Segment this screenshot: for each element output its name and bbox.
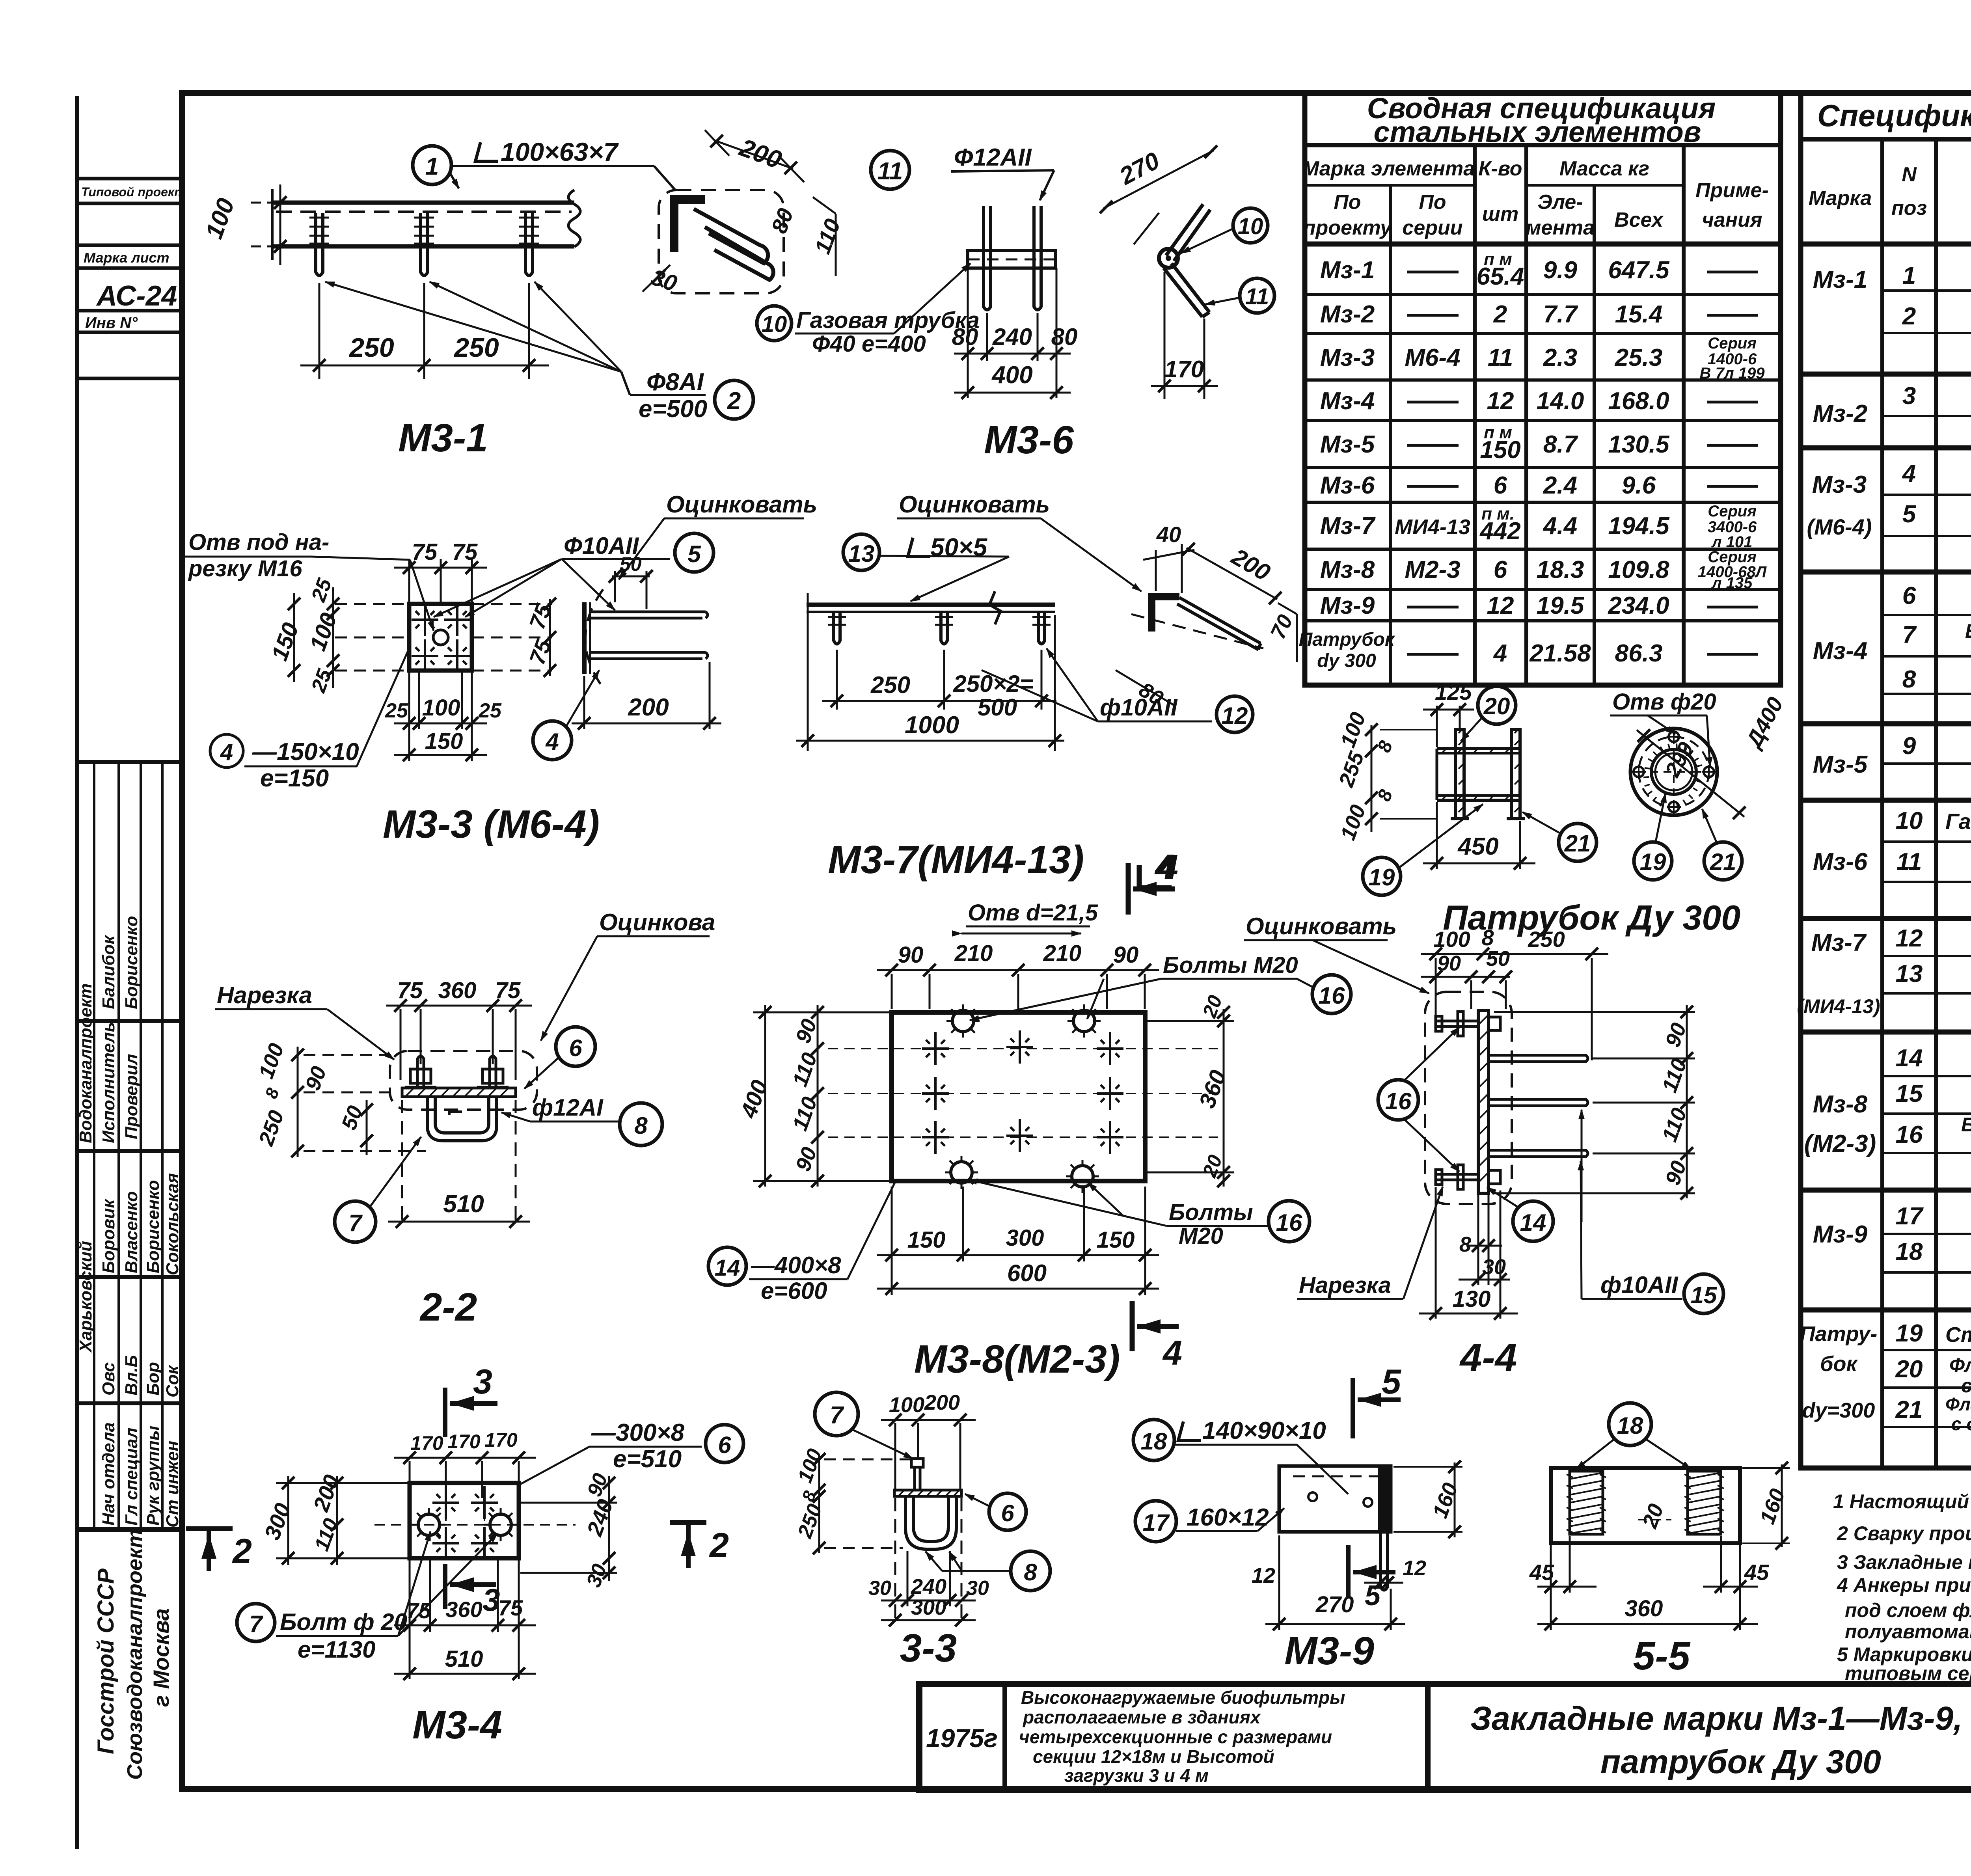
svg-text:17: 17 <box>1143 1509 1170 1536</box>
svg-text:М3-8(М2-3): М3-8(М2-3) <box>914 1337 1120 1381</box>
svg-text:10: 10 <box>762 311 787 337</box>
4-4 top dims 100 8 250 / 90 50 <box>1421 954 1608 1060</box>
svg-text:21: 21 <box>1710 849 1736 875</box>
svg-text:3: 3 <box>1902 382 1916 410</box>
svg-text:90: 90 <box>898 942 924 968</box>
МЗ-6 side dim 270 <box>1104 151 1213 208</box>
svg-text:4: 4 <box>220 740 233 765</box>
svg-text:18: 18 <box>1617 1412 1643 1439</box>
svg-text:300: 300 <box>1006 1225 1044 1251</box>
notes text <box>1833 1490 1971 1684</box>
svg-text:3 Закладные марки должны быть: 3 Закладные марки должны быть оцинкованы… <box>1837 1551 1971 1573</box>
svg-text:e=1130: e=1130 <box>298 1636 375 1663</box>
svg-text:Эле-: Эле- <box>1537 191 1583 214</box>
svg-text:e=150: e=150 <box>260 765 329 792</box>
svg-text:11: 11 <box>1896 848 1922 876</box>
summary table note cells <box>1698 335 1767 592</box>
svg-text:14: 14 <box>1896 1045 1923 1072</box>
svg-text:19: 19 <box>1640 849 1666 875</box>
svg-text:Проверил: Проверил <box>122 1054 141 1139</box>
svg-text:М3-3 (М6-4): М3-3 (М6-4) <box>383 802 600 846</box>
svg-text:75: 75 <box>397 978 423 1003</box>
svg-text:400: 400 <box>991 361 1032 389</box>
svg-text:Патрубок: Патрубок <box>1299 629 1395 650</box>
svg-text:Газовая трубка d=40×3,5: Газовая трубка d=40×3,5 <box>1945 809 1971 834</box>
svg-text:dу=300: dу=300 <box>1802 1399 1875 1422</box>
svg-text:7: 7 <box>1902 621 1917 648</box>
svg-text:8: 8 <box>1902 666 1916 693</box>
svg-text:Ф12АII: Ф12АII <box>954 144 1032 171</box>
callout 19 left view <box>1363 857 1401 895</box>
МЗ-9 body <box>1279 1466 1391 1532</box>
svg-text:6: 6 <box>1902 582 1916 609</box>
svg-text:14: 14 <box>715 1255 740 1281</box>
svg-text:4: 4 <box>1158 848 1178 887</box>
svg-text:170: 170 <box>447 1431 481 1453</box>
svg-text:проекту: проекту <box>1303 216 1393 239</box>
svg-text:Мз-1: Мз-1 <box>1813 266 1867 293</box>
МЗ-8 bolt holes (gear) <box>946 1004 980 1038</box>
section mark 2 left <box>207 1529 211 1571</box>
svg-text:2.3: 2.3 <box>1543 344 1577 371</box>
svg-text:Мз-4: Мз-4 <box>1813 637 1867 665</box>
svg-text:20: 20 <box>1895 1356 1923 1383</box>
svg-text:5: 5 <box>687 541 701 567</box>
5-5 left cleat <box>1570 1471 1603 1534</box>
svg-text:М3-1: М3-1 <box>398 416 488 460</box>
2-2 dim 510 <box>388 1100 530 1227</box>
МЗ-8 bottom dims 150 300 150 / 600 <box>877 1187 1159 1295</box>
summary table dashes <box>1407 272 1758 654</box>
svg-text:Борисенко: Борисенко <box>143 1180 163 1273</box>
МЗ-3 dims left 150 / 25 100 25 <box>294 587 333 688</box>
svg-text:Овс: Овс <box>99 1362 118 1395</box>
section mark 4 bottom <box>1132 1301 1179 1351</box>
callout 21 left view <box>1559 823 1597 861</box>
steel table group labels <box>1797 266 1880 1422</box>
svg-text:стали δ=8мм: стали δ=8мм <box>1961 1375 1971 1397</box>
svg-text:45: 45 <box>1529 1560 1554 1585</box>
svg-text:2: 2 <box>709 1526 729 1565</box>
svg-text:86.3: 86.3 <box>1615 640 1663 667</box>
svg-text:150: 150 <box>1480 436 1520 464</box>
МЗ-6 gas tube crossing <box>968 251 1055 268</box>
svg-text:Гл специал: Гл специал <box>122 1428 141 1526</box>
МЗ-1 angle size label <box>475 142 498 161</box>
МЗ-4 top dims 170 170 170 <box>394 1458 536 1498</box>
5-5 right cleat <box>1688 1471 1721 1534</box>
title block: project description <box>1019 1687 1345 1786</box>
svg-text:8.7: 8.7 <box>1543 431 1578 458</box>
svg-text:25: 25 <box>478 699 502 722</box>
svg-text:Госстрой СССР: Госстрой СССР <box>93 1569 119 1754</box>
Д400 diagonal dim <box>1637 730 1744 817</box>
svg-text:75: 75 <box>498 1595 523 1620</box>
svg-text:Фланец из листовой: Фланец из листовой <box>1949 1354 1971 1376</box>
svg-text:М3-7(МИ4-13): М3-7(МИ4-13) <box>828 838 1084 882</box>
svg-text:12: 12 <box>1896 925 1923 952</box>
svg-text:Мз-9: Мз-9 <box>1813 1221 1868 1248</box>
svg-text:75: 75 <box>495 978 521 1003</box>
МЗ-3 dims right 75 75 <box>549 599 551 676</box>
svg-text:К-во: К-во <box>1478 157 1522 180</box>
svg-text:Закладные марки Мз-1—Мз-9,: Закладные марки Мз-1—Мз-9, <box>1470 1700 1963 1737</box>
МЗ-3 dims top 75 75 <box>394 559 487 604</box>
svg-text:10: 10 <box>1896 807 1923 835</box>
svg-text:Союзводоканалпроект: Союзводоканалпроект <box>123 1529 147 1780</box>
4-4 right dims 90 110 110 90 <box>1494 1005 1695 1198</box>
МЗ-8 left dims 400 / 90 110 110 90 <box>753 1005 889 1187</box>
svg-text:6: 6 <box>569 1035 582 1061</box>
svg-text:Исполнитель: Исполнитель <box>99 1022 118 1143</box>
signature table grid <box>77 762 182 1529</box>
МЗ-8 plate note 14: -400x8 e=600 <box>708 1247 746 1285</box>
svg-text:Мз-8: Мз-8 <box>1813 1091 1868 1118</box>
svg-text:2-2: 2-2 <box>419 1285 477 1329</box>
svg-text:100: 100 <box>1433 927 1470 952</box>
2-2 bolts above plate <box>405 1056 509 1088</box>
steel table sketch column <box>1945 261 1971 1434</box>
svg-text:Мз-5: Мз-5 <box>1320 431 1375 458</box>
callout 21 face view <box>1704 842 1742 880</box>
svg-text:М6-4: М6-4 <box>1405 344 1460 371</box>
svg-text:Нарезка: Нарезка <box>1299 1272 1391 1298</box>
МЗ-8 anchor crosses <box>922 1032 949 1065</box>
svg-text:Нарезка: Нарезка <box>217 982 312 1008</box>
svg-text:(М6-4): (М6-4) <box>1807 514 1872 539</box>
4-4 callout circle 14 <box>1513 1201 1553 1241</box>
signature table rotated texts <box>76 916 182 1528</box>
2-2 callout circle 7 <box>335 1201 376 1242</box>
svg-text:450: 450 <box>1457 833 1498 860</box>
svg-text:13: 13 <box>1896 960 1923 987</box>
svg-text:серии: серии <box>1402 216 1462 239</box>
svg-text:19.5: 19.5 <box>1537 592 1585 619</box>
svg-text:шт: шт <box>1482 203 1518 225</box>
svg-text:Болты М20: Болты М20 <box>1163 952 1298 978</box>
МЗ-4 plate <box>410 1483 519 1558</box>
svg-text:Боровик: Боровик <box>99 1198 118 1273</box>
svg-text:Марка лист: Марка лист <box>84 250 170 266</box>
svg-text:АС-24: АС-24 <box>96 280 177 312</box>
svg-text:300: 300 <box>911 1596 946 1619</box>
svg-text:3-3: 3-3 <box>900 1626 957 1670</box>
svg-text:загрузки 3 и 4 м: загрузки 3 и 4 м <box>1064 1765 1209 1786</box>
svg-text:9: 9 <box>1902 732 1916 760</box>
flange bolt holes <box>1634 732 1714 812</box>
3-3 plate hatched <box>894 1490 961 1496</box>
svg-text:5: 5 <box>1365 1580 1381 1611</box>
svg-text:—400×8: —400×8 <box>751 1252 841 1278</box>
svg-text:250: 250 <box>870 672 910 698</box>
svg-text:Стальная труба dу=300: Стальная труба dу=300 <box>1945 1323 1971 1347</box>
svg-text:В 7л 199: В 7л 199 <box>1700 365 1765 382</box>
left dims 100 255 100 with weld 8 <box>1371 725 1373 832</box>
4-4 plate (hatched vertical) <box>1478 1010 1488 1193</box>
svg-text:Мз-3: Мз-3 <box>1812 471 1867 498</box>
svg-text:МИ4-13: МИ4-13 <box>1395 515 1470 539</box>
svg-text:четырехсекционные с размерам: четырехсекционные с размерами <box>1019 1727 1332 1747</box>
svg-text:510: 510 <box>445 1646 483 1672</box>
svg-text:7: 7 <box>249 1611 263 1637</box>
svg-text:170: 170 <box>410 1432 443 1454</box>
svg-text:16: 16 <box>1385 1088 1412 1114</box>
svg-text:19: 19 <box>1896 1320 1923 1347</box>
svg-text:12: 12 <box>1222 702 1248 729</box>
svg-text:Оцинковать: Оцинковать <box>666 491 817 518</box>
svg-text:л 135: л 135 <box>1711 574 1753 592</box>
view МЗ-9: corner angle bracket <box>1133 1420 1174 1461</box>
svg-text:2.4: 2.4 <box>1543 472 1577 499</box>
svg-text:150: 150 <box>1097 1227 1135 1253</box>
svg-text:240: 240 <box>992 324 1032 350</box>
svg-text:510: 510 <box>443 1190 484 1218</box>
svg-text:Болты: Болты <box>1169 1200 1253 1225</box>
svg-text:11: 11 <box>877 158 903 185</box>
svg-text:Оцинковать: Оцинковать <box>899 491 1050 518</box>
svg-text:65.4: 65.4 <box>1477 263 1524 290</box>
5-5 right dim 160 <box>1781 1464 1783 1547</box>
svg-text:1000: 1000 <box>905 712 959 739</box>
svg-text:Мз-6: Мз-6 <box>1320 472 1375 499</box>
4-4 bottom bolt <box>1436 1165 1500 1189</box>
svg-text:мента: мента <box>1526 216 1595 239</box>
svg-text:80: 80 <box>952 324 978 350</box>
svg-text:50: 50 <box>620 553 642 575</box>
svg-text:200: 200 <box>628 694 669 721</box>
svg-text:6: 6 <box>1494 472 1507 499</box>
svg-text:По: По <box>1334 191 1361 214</box>
svg-text:Сок: Сок <box>163 1364 182 1397</box>
svg-text:Власенко: Власенко <box>122 1191 141 1273</box>
svg-text:21: 21 <box>1564 830 1591 857</box>
svg-text:14: 14 <box>1520 1209 1546 1236</box>
svg-text:1 Настоящий чертеж рассматрива: 1 Настоящий чертеж рассматривать совмест… <box>1833 1490 1971 1513</box>
callout 20 <box>1478 686 1516 724</box>
МЗ-8 plate <box>892 1012 1145 1181</box>
МЗ-1 anchor studs <box>316 213 533 276</box>
МЗ-6 side dim 170 <box>1151 272 1218 399</box>
svg-text:Ф40 e=400: Ф40 e=400 <box>812 331 926 357</box>
МЗ-3 dim 50 top of side view <box>612 571 650 609</box>
svg-text:75: 75 <box>406 1598 431 1623</box>
МЗ-1 leader fan to anchors <box>325 282 621 372</box>
МЗ-8 top dims 90 210 210 90 <box>877 970 1159 1009</box>
svg-text:30: 30 <box>1482 1255 1506 1279</box>
svg-text:100×63×7: 100×63×7 <box>501 137 619 166</box>
svg-text:Инв N°: Инв N° <box>85 314 138 332</box>
МЗ-1 rebar callout Ф8АI e=500 <box>639 369 707 423</box>
svg-text:75: 75 <box>452 539 478 565</box>
svg-text:секции 12×18м и Высотой: секции 12×18м и Высотой <box>1033 1746 1274 1767</box>
МЗ-6 front view: two rebar rods <box>984 206 1041 310</box>
МЗ-6 dims 80 240 80 / 400 <box>954 268 1071 398</box>
svg-text:15: 15 <box>1896 1080 1923 1107</box>
steel spec table (Спецификация стали на одно изделие) <box>1801 93 1971 1468</box>
svg-text:Ст инжен: Ст инжен <box>163 1441 182 1528</box>
svg-text:2: 2 <box>1902 303 1916 330</box>
svg-text:поз: поз <box>1891 197 1927 220</box>
svg-text:21: 21 <box>1895 1396 1923 1423</box>
МЗ-3 side view: plate edge with two studs <box>584 589 708 688</box>
svg-text:170: 170 <box>1164 356 1204 382</box>
svg-text:16: 16 <box>1276 1209 1302 1236</box>
svg-text:типовым сериям: типовым сериям <box>1845 1662 1971 1684</box>
svg-text:234.0: 234.0 <box>1608 592 1669 619</box>
svg-text:патрубок Ду 300: патрубок Ду 300 <box>1600 1743 1881 1780</box>
svg-text:Мз-3: Мз-3 <box>1320 344 1375 371</box>
МЗ-8 right dims 20 360 20 <box>1147 1009 1234 1187</box>
МЗ-3 plate material note (4) -150x10 e=150 <box>210 734 243 768</box>
svg-text:Мз-5: Мз-5 <box>1813 751 1868 778</box>
svg-text:Отв d=21,5: Отв d=21,5 <box>968 900 1098 926</box>
2-2 zinc dashed outline <box>390 1051 537 1110</box>
svg-text:8: 8 <box>1459 1233 1471 1256</box>
section mark 2 right <box>670 1520 706 1525</box>
svg-text:Нач отдела: Нач отдела <box>99 1422 118 1526</box>
svg-text:—300×8: —300×8 <box>591 1419 685 1446</box>
svg-text:170: 170 <box>484 1429 518 1451</box>
МЗ-4 bottom dims 75 360 75 / 510 <box>394 1560 536 1679</box>
svg-text:8: 8 <box>634 1112 648 1139</box>
svg-text:50: 50 <box>1486 947 1510 971</box>
2-2 top dims 75 360 75 <box>386 1006 532 1080</box>
svg-text:Балибок: Балибок <box>99 934 118 1009</box>
svg-text:М2-3: М2-3 <box>1405 556 1460 583</box>
3-3 callout circle 6 <box>989 1493 1026 1530</box>
МЗ-3 dims bottom 25 100 25 / 150 <box>394 671 487 761</box>
svg-text:160×12: 160×12 <box>1187 1504 1269 1531</box>
svg-text:2: 2 <box>232 1531 252 1570</box>
svg-text:под слоем флюса или контактны: под слоем флюса или контактным способом … <box>1845 1599 1971 1621</box>
svg-text:Болт ф 20: Болт ф 20 <box>280 1609 407 1635</box>
svg-text:125: 125 <box>1435 680 1472 704</box>
МЗ-9 lower stud <box>1380 1532 1388 1590</box>
2-2 U-bolt <box>427 1097 497 1141</box>
svg-text:200: 200 <box>924 1391 960 1414</box>
svg-text:5: 5 <box>1902 501 1917 528</box>
svg-text:Мз-1: Мз-1 <box>1320 257 1375 284</box>
svg-text:14.0: 14.0 <box>1537 387 1584 415</box>
svg-text:30: 30 <box>868 1577 891 1600</box>
svg-text:Серия: Серия <box>1708 335 1757 352</box>
svg-text:Бор: Бор <box>143 1362 163 1395</box>
svg-text:80: 80 <box>1051 324 1078 350</box>
svg-text:Приме-: Приме- <box>1695 179 1769 202</box>
title block <box>919 1684 1971 1790</box>
svg-text:1975г: 1975г <box>926 1723 998 1753</box>
МЗ-4 right dims 90 240 30 <box>520 1476 617 1581</box>
svg-text:Сокольская: Сокольская <box>163 1173 182 1275</box>
svg-text:7.7: 7.7 <box>1543 301 1578 328</box>
svg-text:e=500: e=500 <box>639 395 707 423</box>
svg-text:e=510: e=510 <box>613 1446 682 1473</box>
svg-text:240: 240 <box>911 1575 946 1598</box>
МЗ-6 side callout 11 <box>1240 278 1274 313</box>
svg-text:Болт М20 с гайкой: Болт М20 с гайкой <box>1961 1114 1971 1136</box>
svg-text:—150×10: —150×10 <box>252 738 359 766</box>
svg-text:75: 75 <box>412 539 438 565</box>
МЗ-6 side callout 10 <box>1233 208 1268 243</box>
МЗ-7 dims 250 / 250x2=500 / 1000 <box>796 593 1064 751</box>
svg-text:e=600: e=600 <box>761 1278 827 1304</box>
svg-text:4: 4 <box>545 728 559 755</box>
svg-text:140×90×10: 140×90×10 <box>1202 1417 1326 1444</box>
svg-text:Всех: Всех <box>1614 209 1664 231</box>
svg-text:6: 6 <box>718 1432 731 1458</box>
svg-text:8: 8 <box>1481 925 1494 950</box>
svg-text:5-5: 5-5 <box>1633 1634 1691 1678</box>
svg-text:18.3: 18.3 <box>1537 556 1584 583</box>
svg-text:500: 500 <box>978 694 1017 721</box>
svg-text:М3-6: М3-6 <box>984 418 1074 462</box>
svg-text:7: 7 <box>348 1210 363 1236</box>
svg-text:15: 15 <box>1691 1282 1718 1308</box>
section 3-3: U-bolt through plate <box>815 1392 858 1436</box>
svg-text:13: 13 <box>848 540 875 567</box>
svg-text:150: 150 <box>907 1227 946 1253</box>
svg-text:130.5: 130.5 <box>1608 431 1670 458</box>
svg-text:6: 6 <box>1494 556 1507 583</box>
svg-text:18: 18 <box>1141 1428 1167 1455</box>
svg-text:Мз-6: Мз-6 <box>1813 848 1868 876</box>
svg-text:Мз-4: Мз-4 <box>1320 387 1375 415</box>
section mark 5 bottom <box>1348 1545 1395 1598</box>
svg-text:Мз-7: Мз-7 <box>1320 512 1376 540</box>
МЗ-1 callout circle 1 <box>413 146 451 184</box>
МЗ-7 anchor studs <box>834 612 1045 644</box>
svg-text:9.9: 9.9 <box>1543 257 1578 284</box>
svg-text:12: 12 <box>1487 387 1514 415</box>
svg-text:По: По <box>1419 191 1446 214</box>
svg-text:4: 4 <box>1902 460 1916 487</box>
svg-text:Отв ф20: Отв ф20 <box>1612 689 1716 715</box>
svg-text:40: 40 <box>1156 522 1181 547</box>
МЗ-1 cross-section detail <box>659 190 784 293</box>
svg-text:21.58: 21.58 <box>1529 640 1591 667</box>
МЗ-1 dim 100 left <box>251 184 280 265</box>
svg-text:Мз-2: Мз-2 <box>1813 400 1867 427</box>
3-3 U-bolt <box>905 1496 956 1549</box>
МЗ-1 dim 250 250 <box>300 283 549 379</box>
lower stamp box: Госстрой СССР Союзводоканалпроект г Москва <box>93 1529 173 1780</box>
svg-text:6: 6 <box>1001 1500 1014 1526</box>
svg-text:резку М16: резку М16 <box>188 556 302 581</box>
svg-text:12: 12 <box>1252 1564 1275 1587</box>
svg-text:100: 100 <box>422 695 460 721</box>
svg-text:12: 12 <box>1487 592 1514 619</box>
svg-text:45: 45 <box>1744 1560 1769 1585</box>
svg-text:Мз-2: Мз-2 <box>1320 301 1375 328</box>
svg-text:3: 3 <box>473 1362 492 1401</box>
svg-text:10: 10 <box>1238 214 1263 239</box>
svg-text:4-4: 4-4 <box>1459 1336 1517 1380</box>
svg-text:11: 11 <box>1488 344 1513 371</box>
Патрубок flange face view <box>1630 728 1717 815</box>
5-5 bottom dims 45 360 45 <box>1537 1536 1758 1630</box>
2-2 plate (hatched) <box>402 1088 516 1097</box>
svg-text:109.8: 109.8 <box>1608 556 1669 583</box>
svg-text:Ф8АI: Ф8АI <box>646 369 704 396</box>
3-3 top dims 100 200 <box>881 1420 976 1490</box>
svg-text:4.4: 4.4 <box>1543 512 1577 540</box>
svg-text:25.3: 25.3 <box>1615 344 1663 371</box>
svg-text:12: 12 <box>1403 1556 1426 1580</box>
svg-text:Вл.Б: Вл.Б <box>122 1355 141 1395</box>
dim 125 <box>1423 706 1474 747</box>
svg-text:442: 442 <box>1479 518 1520 545</box>
МЗ-6 side view bent rod <box>1164 204 1210 317</box>
